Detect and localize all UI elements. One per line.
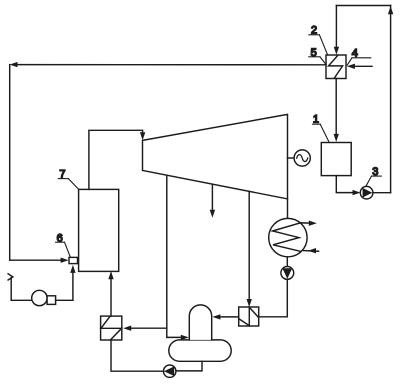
fan blower circle xyxy=(32,290,47,305)
generator G xyxy=(294,150,310,166)
condensate pump triangle xyxy=(282,268,292,279)
deaerator dome xyxy=(189,305,211,340)
label 3 leader xyxy=(366,176,372,186)
wire: fan outlet horizontal xyxy=(56,299,73,301)
arrowhead into economizer right side xyxy=(123,326,131,331)
pipe: feed line left and up to economizer xyxy=(111,340,164,371)
economizer flash symbol xyxy=(101,316,122,340)
fan outlet box xyxy=(47,296,56,305)
superheater/attemperator 2 xyxy=(326,55,346,79)
arrowhead cooling water in xyxy=(308,248,316,253)
unit 2 flash symbol xyxy=(329,55,343,78)
arrowhead left end of line 5 xyxy=(10,62,18,67)
pipe: top horizontal run xyxy=(336,5,390,7)
pipe: condensate down and left to heater xyxy=(259,279,288,317)
heater flash symbol xyxy=(239,307,258,325)
pipe: pump 3 to right riser xyxy=(373,192,391,194)
label 4 underline xyxy=(352,57,371,59)
arrowhead into turbine inlet xyxy=(140,132,145,140)
pipe: tank outlet down xyxy=(176,361,202,371)
label 1 underline xyxy=(313,123,321,125)
arrowhead into heater top xyxy=(247,299,252,307)
wire: air riser to unit 6 xyxy=(72,268,74,300)
pipe: unit 1 outlet to pump 3 xyxy=(336,176,356,193)
air inlet chevron xyxy=(8,274,13,280)
pipe: extraction 3 down to heater xyxy=(248,191,250,303)
label 3 underline xyxy=(372,175,382,177)
pipe: extraction 1 branch to economizer xyxy=(127,327,167,329)
pipe: right vertical run xyxy=(390,6,392,193)
cooling water inlet stub xyxy=(304,250,319,253)
label 5 leader xyxy=(320,57,326,65)
arrowhead line 4 into unit 2 xyxy=(347,64,355,69)
wire: left vertical down xyxy=(9,65,11,261)
condensate pump xyxy=(281,267,294,280)
label 1 leader xyxy=(320,124,329,142)
arrowhead up into unit 6 bottom xyxy=(70,265,75,273)
feed pump triangle xyxy=(164,366,174,376)
arrowhead cooling water out xyxy=(309,221,317,226)
economizer (bottom left) xyxy=(101,316,122,340)
pipe: extraction 2 stub xyxy=(211,184,213,214)
pump 3 triangle xyxy=(363,188,373,198)
label 4 leader xyxy=(347,58,352,65)
turbine xyxy=(143,114,288,198)
label 6 underline xyxy=(56,241,65,243)
label 7 leader xyxy=(68,179,78,190)
pipe: heater drain to deaerator xyxy=(216,316,238,318)
arrowhead into unit 1 top xyxy=(334,134,339,142)
generator sine symbol xyxy=(297,155,308,162)
label 6 leader xyxy=(65,242,71,257)
arrowhead into deaerator dome right xyxy=(212,314,220,319)
arrowhead into pump 3 xyxy=(353,190,361,195)
pipe: unit 2 to steam user 1 xyxy=(335,79,337,138)
pipe: turbine exhaust to condenser xyxy=(287,199,289,219)
pump 3 xyxy=(360,186,373,199)
condenser coil zigzag xyxy=(273,223,302,252)
label 2 underline xyxy=(309,34,320,36)
deaerator tank xyxy=(169,340,231,361)
label 2 leader xyxy=(319,35,327,55)
label 5 underline xyxy=(309,56,320,58)
pipe: line 4 input from right xyxy=(351,65,372,67)
wire: horizontal into unit 6 xyxy=(10,259,62,261)
feed pump xyxy=(164,365,176,377)
arrowhead down process steam xyxy=(210,210,215,218)
wire: air line down xyxy=(10,278,12,301)
pipe: extraction 1 down from turbine xyxy=(166,175,168,337)
steam user 1 xyxy=(321,143,351,176)
arrowhead down into unit 2 top xyxy=(334,47,339,55)
arrowhead into boiler bottom xyxy=(108,271,113,279)
arrowhead up on right riser xyxy=(388,6,393,14)
label 7 underline xyxy=(58,178,68,180)
generator shaft stub xyxy=(288,157,295,159)
pipe: condenser to condensate pump xyxy=(286,257,288,267)
pipe: main steam from boiler top xyxy=(89,130,143,189)
pipe: unit 2 top riser xyxy=(335,6,337,51)
pipe: economizer to boiler bottom xyxy=(110,274,112,317)
wire: air line to fan xyxy=(11,299,32,301)
burner unit 6 (small box on boiler left side) xyxy=(69,257,78,263)
arrowhead into deaerator dome base xyxy=(181,335,189,340)
heater (bottom right) xyxy=(239,307,259,326)
pipe: line 5 long horizontal return to far left xyxy=(13,64,326,66)
boiler 7 xyxy=(79,189,119,271)
cooling water outlet stub xyxy=(301,222,311,224)
pipe: extraction 1 into deaerator xyxy=(167,336,185,338)
condenser circle xyxy=(269,218,307,256)
arrowhead into unit 6 xyxy=(61,258,69,263)
